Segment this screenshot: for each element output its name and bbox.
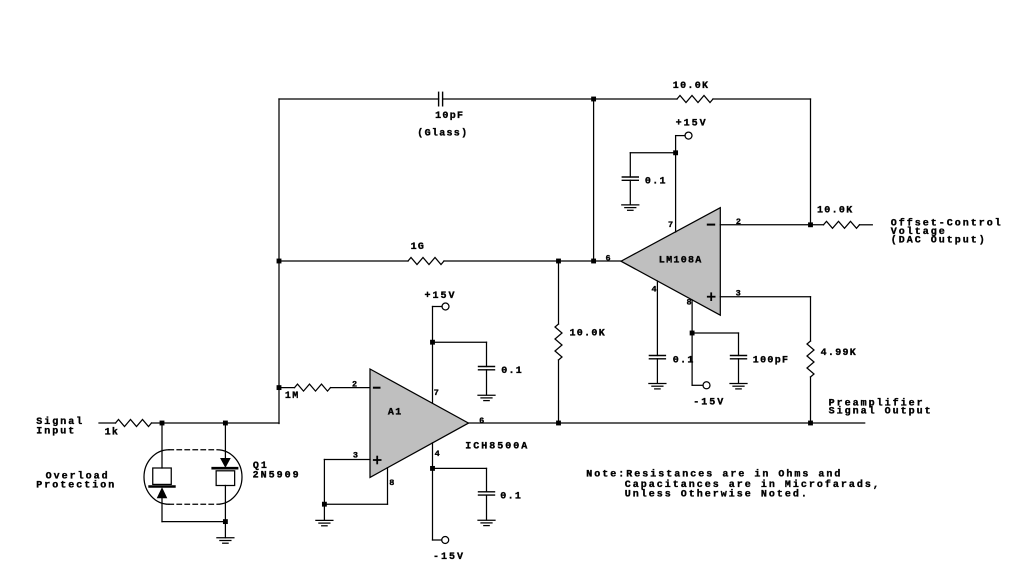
svg-text:10.0K: 10.0K bbox=[673, 81, 710, 92]
svg-text:10.0K: 10.0K bbox=[570, 329, 607, 340]
wire A1 pin4 vertical bbox=[432, 443, 434, 540]
wire LM108A pin3 lead bbox=[720, 296, 810, 298]
svg-text:(Glass): (Glass) bbox=[417, 128, 468, 140]
svg-text:(DAC Output): (DAC Output) bbox=[891, 234, 987, 246]
svg-text:LM108A: LM108A bbox=[659, 255, 703, 266]
wire C4 ground stub bbox=[656, 359, 658, 384]
node junction A1 +15V branch bbox=[431, 340, 435, 344]
wire A1 C2 branch horizontal bbox=[433, 467, 487, 469]
supply circle +15V A1 bbox=[442, 303, 449, 310]
supply circle -15V LM108A bbox=[703, 382, 710, 389]
svg-text:Note:Resistances are in Ohms a: Note:Resistances are in Ohms and bbox=[586, 469, 842, 481]
svg-text:0.1: 0.1 bbox=[501, 366, 523, 377]
wire top feedback mid segment bbox=[443, 98, 677, 100]
wire signal input lead bbox=[99, 422, 116, 424]
svg-text:1G: 1G bbox=[411, 242, 426, 253]
svg-text:6: 6 bbox=[479, 416, 484, 426]
ground protection bbox=[217, 538, 234, 543]
resistor 10.0K vertical bbox=[555, 324, 562, 360]
node junction LM108A pin8 branch bbox=[690, 331, 694, 335]
svg-text:A1: A1 bbox=[388, 408, 403, 419]
svg-text:4: 4 bbox=[652, 285, 657, 295]
node junction signal x225 bbox=[224, 421, 228, 425]
svg-text:ICH8500A: ICH8500A bbox=[465, 442, 529, 453]
svg-text:1M: 1M bbox=[285, 391, 300, 402]
capacitor C1 0.1 bbox=[479, 367, 495, 370]
svg-text:-15V: -15V bbox=[433, 552, 465, 563]
node junction signal x162 bbox=[160, 421, 164, 425]
node junction output x810 bbox=[809, 421, 813, 425]
wire A1 pin3-pin8 bottom row bbox=[324, 503, 387, 505]
svg-text:7: 7 bbox=[434, 388, 439, 398]
capacitor C4 0.1 bbox=[649, 356, 665, 359]
protection ellipse dashed top bbox=[169, 449, 217, 451]
svg-text:Protection: Protection bbox=[36, 480, 116, 492]
node junction protection bottom bbox=[224, 520, 228, 524]
svg-text:0.1: 0.1 bbox=[645, 177, 667, 188]
wire A1 C1 branch horizontal bbox=[433, 341, 487, 343]
LM108A plus sign bbox=[708, 293, 715, 300]
diode D-left bar bbox=[150, 485, 175, 488]
svg-text:0.1: 0.1 bbox=[500, 491, 522, 502]
svg-text:Signal Output: Signal Output bbox=[829, 406, 933, 418]
diode D-right arrow down bbox=[221, 459, 230, 467]
svg-text:4: 4 bbox=[435, 449, 440, 459]
wire top feedback left segment bbox=[279, 98, 439, 100]
ground A1 pin3 bbox=[316, 520, 333, 525]
wire LM108A C3 branch vertical bbox=[629, 153, 631, 177]
wire C5 ground stub bbox=[738, 359, 740, 384]
wire vertical x593 bbox=[593, 99, 595, 261]
svg-text:4.99K: 4.99K bbox=[821, 348, 858, 359]
resistor 4.99K bbox=[807, 341, 814, 377]
svg-text:+15V: +15V bbox=[676, 119, 708, 130]
svg-text:0.1: 0.1 bbox=[673, 356, 695, 367]
resistor 1k bbox=[116, 420, 152, 427]
node junction 1M x279 bbox=[277, 386, 281, 390]
svg-text:100pF: 100pF bbox=[753, 356, 790, 367]
node junction A1 pin3 ground bbox=[323, 502, 327, 506]
wire 10.0K vertical upper bbox=[558, 261, 560, 324]
node junction output x558 bbox=[557, 421, 561, 425]
wire -15V A1 stub bbox=[433, 539, 442, 541]
wire 100pF branch horizontal bbox=[692, 332, 738, 334]
op-amp A1 triangle bbox=[370, 369, 469, 477]
supply circle +15V LM108A bbox=[685, 132, 692, 139]
wire C1 ground stub bbox=[486, 370, 488, 395]
node junction LM108A +15V branch bbox=[674, 151, 678, 155]
svg-text:2N5909: 2N5909 bbox=[253, 471, 301, 482]
wire protection ground stub bbox=[224, 522, 226, 538]
svg-text:Input: Input bbox=[36, 426, 76, 437]
wire right diode bottom lead bbox=[224, 486, 226, 522]
wire 1M to pin2 bbox=[331, 387, 371, 389]
protection ellipse left arc bbox=[144, 450, 169, 505]
resistor 1M bbox=[295, 384, 331, 391]
wire A1 pin3 ground stub bbox=[323, 504, 325, 520]
wire +15V LM108A stub bbox=[676, 135, 685, 137]
svg-text:10.0K: 10.0K bbox=[817, 205, 854, 216]
svg-text:8: 8 bbox=[389, 478, 394, 488]
capacitor C5 100pF bbox=[731, 356, 747, 359]
svg-text:8: 8 bbox=[687, 298, 692, 308]
svg-text:7: 7 bbox=[668, 220, 673, 230]
wire C3 ground stub bbox=[629, 180, 631, 204]
wire right vertical to pin2 bbox=[810, 99, 812, 225]
wire LM108A pin2 lead bbox=[720, 224, 823, 226]
node junction A1 -15V branch bbox=[431, 467, 435, 471]
LM108A minus sign bbox=[708, 224, 714, 226]
op-amp U2 LM108A triangle bbox=[621, 208, 720, 316]
ground C3 bbox=[622, 205, 639, 210]
wire left vertical input node bbox=[278, 99, 280, 424]
wire A1 output bbox=[469, 422, 865, 424]
wire 10.0K vertical lower bbox=[558, 360, 560, 423]
svg-text:1k: 1k bbox=[105, 426, 120, 438]
protection ellipse dashed bottom bbox=[169, 503, 217, 505]
wire A1 pin3 vertical bbox=[323, 460, 325, 505]
wire pin3 vertical lower bbox=[810, 377, 812, 423]
wire right diode top lead bbox=[224, 423, 226, 459]
node junction pin2 x810 bbox=[809, 223, 813, 227]
svg-text:-15V: -15V bbox=[693, 397, 725, 408]
wire A1 pin3 lead bbox=[324, 459, 370, 461]
node junction top wire x593 bbox=[592, 97, 596, 101]
wire LM108A pin4 vertical bbox=[656, 281, 658, 356]
diode D-left box bbox=[153, 468, 172, 484]
wire 100pF branch vertical bbox=[738, 333, 740, 356]
node junction 1G row x593 bbox=[592, 259, 596, 263]
wire signal node row bbox=[152, 422, 280, 424]
diode D-left arrow up bbox=[158, 489, 167, 498]
ground C1 bbox=[478, 395, 495, 400]
capacitor C-10pF bbox=[439, 92, 443, 106]
wire +15V A1 stub bbox=[433, 306, 443, 308]
wire 1G row left bbox=[279, 260, 408, 262]
wire offset lead bbox=[860, 224, 873, 226]
wire A1 pin7 vertical bbox=[432, 307, 434, 404]
wire LM108A pin7 vertical bbox=[675, 136, 677, 232]
svg-text:3: 3 bbox=[353, 450, 358, 460]
svg-text:10pF: 10pF bbox=[435, 111, 464, 122]
ground C5 bbox=[730, 384, 747, 389]
capacitor C3 0.1 bbox=[622, 177, 638, 180]
wire protection bottom row bbox=[162, 521, 225, 523]
A1 minus sign bbox=[374, 387, 380, 389]
wire left diode top lead bbox=[161, 423, 163, 468]
diode D-right bar bbox=[213, 467, 237, 470]
wire A1 C1 branch vertical bbox=[486, 342, 488, 366]
wire A1 C2 branch vertical bbox=[486, 468, 488, 491]
wire top feedback right segment bbox=[713, 98, 811, 100]
wire LM108A pin8 vertical bbox=[691, 300, 693, 385]
wire C2 ground stub bbox=[486, 495, 488, 520]
capacitor C2 0.1 bbox=[479, 492, 495, 495]
wire 1M lead left bbox=[279, 387, 295, 389]
svg-text:3: 3 bbox=[736, 289, 741, 299]
supply circle -15V A1 bbox=[442, 537, 449, 544]
resistor 10.0K offset bbox=[824, 221, 860, 228]
wire pin3 vertical upper bbox=[810, 297, 812, 341]
diode D-right box bbox=[216, 471, 235, 486]
node junction 1G left bbox=[277, 259, 281, 263]
wire -15V LM108A stub bbox=[692, 384, 703, 386]
ground C2 bbox=[478, 520, 495, 525]
ground C4 bbox=[649, 384, 666, 389]
wire LM108A C3 branch horizontal bbox=[630, 152, 675, 154]
resistor 1G bbox=[408, 258, 444, 265]
A1 plus sign bbox=[374, 457, 381, 464]
protection ellipse right arc bbox=[217, 450, 242, 505]
svg-text:6: 6 bbox=[606, 254, 611, 264]
wire left diode bottom lead bbox=[161, 498, 163, 522]
svg-text:2: 2 bbox=[352, 379, 357, 389]
svg-text:+15V: +15V bbox=[425, 291, 457, 302]
wire A1 pin8 vertical bbox=[387, 468, 389, 504]
svg-text:Unless Otherwise Noted.: Unless Otherwise Noted. bbox=[625, 488, 809, 500]
svg-text:2: 2 bbox=[736, 217, 741, 227]
resistor 10.0K top bbox=[677, 96, 713, 103]
node junction 1G row x558 bbox=[557, 259, 561, 263]
wire 1G row right bbox=[444, 260, 621, 262]
